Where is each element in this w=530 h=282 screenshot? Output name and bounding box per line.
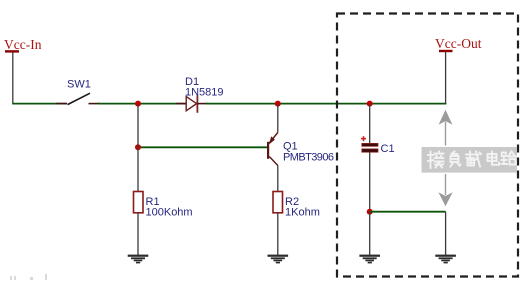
- wire: vertical from rail node down to base node: [137, 104, 139, 148]
- wire: main rail D1 to Vcc-Out corner: [206, 103, 446, 105]
- resistor R2 1Kohm: [273, 192, 320, 219]
- annotation arrow down (from load): [438, 174, 452, 206]
- svg-text:PMBT3906: PMBT3906: [283, 152, 334, 164]
- node junction at C1 tap: [367, 101, 373, 107]
- wire: rail node down to C1 top plate: [369, 104, 371, 144]
- wire: main rail left segment (Vcc-In to SW1): [12, 103, 67, 105]
- resistor R1 100Kohm: [134, 192, 193, 219]
- svg-text:Vcc-In: Vcc-In: [4, 37, 42, 52]
- svg-text:Vcc-Out: Vcc-Out: [435, 36, 482, 51]
- wire: C1 bottom plate down to bottom node: [369, 152, 371, 212]
- wire: R1 to ground: [137, 213, 139, 255]
- wire: right drop from bottom wire to ground: [445, 212, 447, 255]
- svg-text:1N5819: 1N5819: [185, 87, 224, 99]
- power port Vcc-In: [4, 37, 42, 104]
- wire: C1 node down to ground: [369, 212, 371, 255]
- wire: bottom green wire to right drop: [370, 211, 446, 213]
- annotation label box: connect-to-load-circuit (CJK drawn as strokes): [422, 147, 518, 173]
- svg-text:100Kohm: 100Kohm: [146, 207, 193, 219]
- ground under R2: [268, 255, 289, 264]
- dashed load-circuit boundary box: [337, 14, 518, 277]
- ground at load return (right): [435, 255, 456, 264]
- wire: base wire from divider node to Q1 base: [138, 146, 267, 148]
- wire: emitter drop from rail to Q1: [277, 104, 279, 133]
- annotation arrow up (to load): [439, 110, 453, 146]
- power port Vcc-Out: [435, 36, 482, 104]
- char JIE: [428, 152, 444, 169]
- watermark fragment bottom-left: [10, 274, 47, 280]
- ground under R1: [128, 255, 149, 264]
- ground under C1: [359, 255, 380, 264]
- capacitor C1 (polarized): [361, 136, 395, 155]
- svg-text:SW1: SW1: [67, 79, 91, 91]
- switch SW1: [56, 79, 100, 105]
- wire: base node down to R1: [137, 147, 139, 191]
- char ZAI: [466, 152, 481, 167]
- wire: main rail SW1 to diode D1: [98, 103, 187, 105]
- wire: R2 to ground: [277, 213, 279, 255]
- wire: Q1 collector down to R2: [277, 166, 279, 192]
- svg-text:C1: C1: [381, 143, 395, 155]
- char LU: [502, 152, 517, 165]
- node junction base/divider: [135, 144, 141, 150]
- node junction at Q1 emitter tap: [275, 101, 281, 107]
- transistor Q1 PMBT3906: [267, 133, 334, 166]
- node junction after SW1 (base divider tap): [135, 101, 141, 107]
- node junction at C1 bottom / ground rail: [367, 209, 373, 215]
- svg-text:1Kohm: 1Kohm: [285, 207, 320, 219]
- char FU: [451, 152, 461, 167]
- diode D1 1N5819: [176, 76, 224, 113]
- char DIAN: [488, 152, 500, 165]
